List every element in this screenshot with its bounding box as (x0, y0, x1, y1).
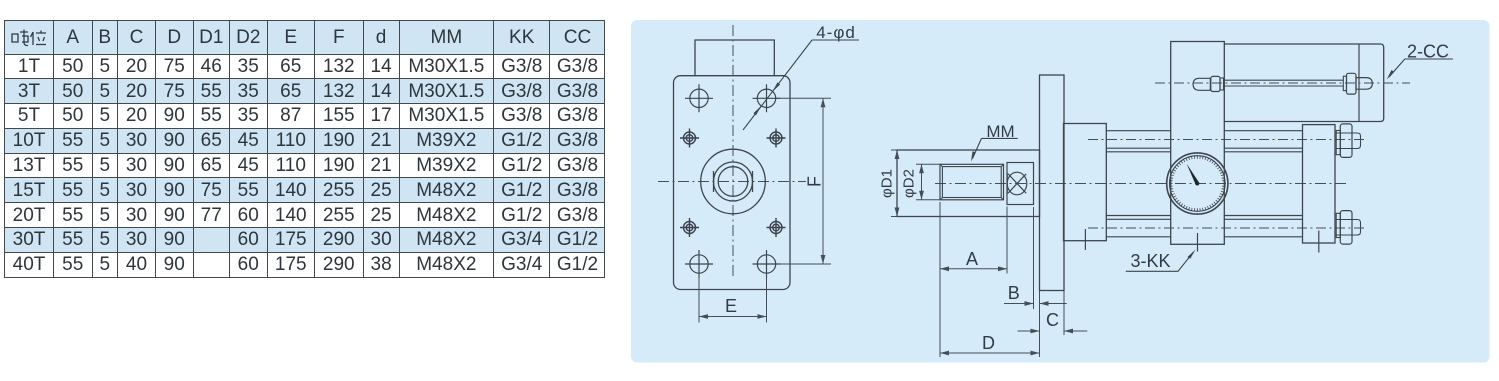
upper rod right bullet cap (1356, 78, 1372, 90)
upper rod left washer (1220, 78, 1224, 90)
KK port tick at gauge block (1197, 233, 1199, 252)
upper cylinder body (1224, 44, 1383, 122)
svg-text:φD2: φD2 (901, 169, 918, 198)
label 2-CC with leader (1387, 42, 1453, 80)
A dimension (940, 202, 1007, 357)
svg-text:φD1: φD1 (879, 169, 896, 198)
C dimension (1018, 291, 1088, 336)
side view: tube and tie-rod lines segment 1 (1106, 131, 1170, 237)
tie rod lower centerline (1088, 227, 1365, 229)
label 4-phi-d with leader (743, 23, 859, 130)
upper rod right washer (1343, 76, 1346, 90)
threaded hole upper-right (767, 129, 786, 148)
side view: ram barrel (897, 150, 1040, 217)
tie rod lower nut: hex nut (1340, 211, 1352, 245)
MM rod corner chamfers (940, 164, 1004, 200)
KK port tick at end flange (1318, 231, 1320, 253)
svg-text:3-KK: 3-KK (1130, 251, 1170, 271)
D dimension (940, 291, 1040, 358)
upper cylinder centerline (1155, 82, 1410, 84)
upper rod shaft (1224, 80, 1343, 86)
phi D1 dimension (891, 150, 897, 217)
side view: MM threaded rod inner (942, 167, 1001, 198)
tie rod upper nut: facet lines and rod tip (1336, 133, 1360, 149)
central boss circles (701, 149, 766, 214)
front view: top tab (695, 40, 774, 76)
side view: mounting flange plate (1040, 75, 1065, 291)
side view: tube and tie-rod lines segment 2 (1224, 131, 1302, 237)
threaded hole upper-left (680, 129, 699, 148)
B dimension (1004, 207, 1067, 309)
svg-text:A: A (966, 249, 978, 269)
KK port tick at head block (1084, 229, 1086, 250)
svg-text:F: F (805, 176, 825, 187)
upper cylinder end cap line (1358, 44, 1360, 122)
F dimension (777, 98, 832, 264)
tie rod lower nut: washer (1336, 213, 1340, 237)
corner hole top-right (753, 84, 781, 112)
side view: main horizontal centerline (935, 183, 1346, 185)
blue background panel (631, 20, 1490, 363)
side view: rod end box (1007, 163, 1034, 205)
svg-text:B: B (1008, 283, 1020, 303)
svg-text:E: E (725, 296, 737, 316)
upper rod left nut (1211, 76, 1220, 91)
svg-text:D: D (982, 333, 995, 353)
corner hole bottom-right (753, 250, 781, 278)
tie rod lower nut: facet lines and rod tip (1336, 220, 1360, 236)
svg-text:4-φd: 4-φd (816, 23, 856, 42)
tie rod upper centerline (1088, 139, 1365, 141)
E dimension (699, 274, 767, 323)
front view vertical centerline (732, 25, 734, 278)
label 3-KK with leader (1126, 250, 1196, 272)
label MM with leader (971, 122, 1018, 162)
pressure gauge outer rings (1167, 153, 1228, 214)
upper rod left bullet cap (1193, 78, 1210, 90)
side view: MM threaded rod outer (940, 164, 1004, 200)
side view: cylinder end flange (1303, 125, 1336, 243)
front view: flange plate (674, 76, 791, 290)
front view horizontal centerline (658, 181, 806, 183)
svg-text:C: C (1046, 310, 1059, 330)
phi D2 dimension (916, 164, 941, 200)
threaded hole lower-left (680, 218, 699, 237)
specification table (4, 20, 605, 278)
side view: gauge block (1171, 42, 1225, 245)
tie rod upper nut: washer (1336, 131, 1340, 155)
corner hole top-left (685, 84, 713, 112)
side view: rod end crossed plug (1007, 172, 1027, 195)
side view: cylinder head block (1064, 124, 1107, 241)
upper rod right nut (1347, 73, 1357, 94)
pressure gauge needle (1187, 164, 1200, 185)
corner hole bottom-left (685, 250, 713, 278)
tie rod upper nut: hex nut (1340, 124, 1352, 157)
threaded hole lower-right (767, 218, 786, 237)
pressure gauge tick ring (1170, 156, 1226, 212)
